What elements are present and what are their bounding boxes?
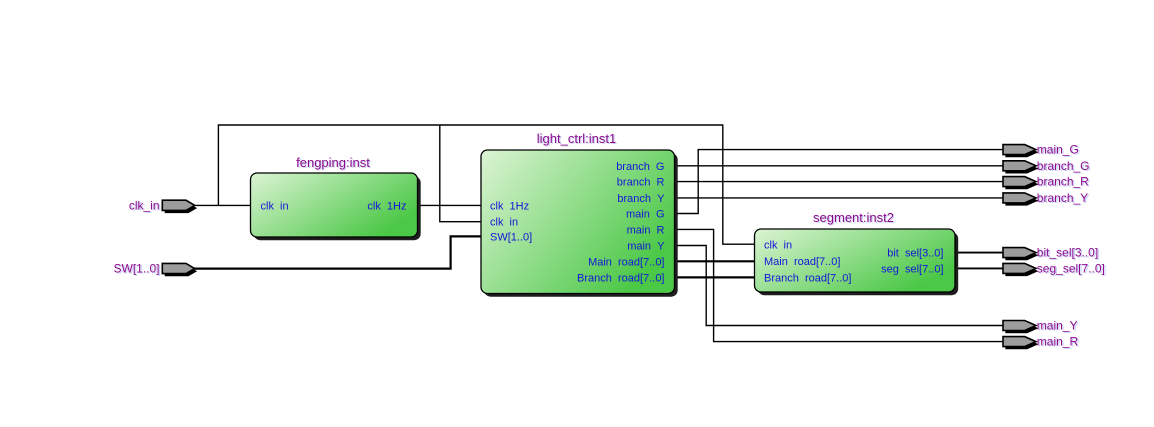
svg-text:Branch road[7..0]: Branch road[7..0] [764,272,851,284]
label seg_sel[7..0] [1037,261,1107,276]
svg-text:branch R: branch R [617,177,665,189]
bus Main road[7..0] light_ctrl to segment [674,260,755,262]
output pin main_R [1003,337,1038,350]
wire vertical branch from clk_in net up [217,125,219,205]
label main_Y [1037,319,1079,334]
label SW[1..0] [113,262,161,277]
wire branch R to branch_R pin [674,181,1003,183]
block light_ctrl:inst1 [481,150,678,297]
bus segment seg sel to seg_sel pin [954,267,1003,269]
svg-text:main G: main G [626,209,665,221]
label clk_in [129,198,161,213]
svg-text:branch_Y: branch_Y [1037,191,1088,205]
svg-text:main_G: main_G [1037,143,1079,157]
label main_R [1037,335,1080,350]
wire main R to main_R pin [674,229,1003,341]
svg-text:seg_sel[7..0]: seg_sel[7..0] [1037,261,1105,275]
svg-text:segment:inst2: segment:inst2 [813,210,894,225]
svg-text:SW[1..0]: SW[1..0] [490,231,532,243]
wire branch G to branch_G pin [674,165,1003,167]
wire top horizontal clk net [218,124,724,126]
input pin SW[1..0] [162,263,197,276]
label branch_Y [1037,191,1090,206]
svg-text:clk 1Hz: clk 1Hz [367,200,406,212]
svg-text:main_Y: main_Y [1037,319,1078,333]
svg-text:branch_G: branch_G [1037,159,1090,173]
label branch_G [1037,159,1091,174]
output pin branch_G [1003,161,1038,174]
svg-text:SW[1..0]: SW[1..0] [113,262,159,276]
title light_ctrl:inst1 [537,131,618,147]
output pin main_G [1003,145,1038,158]
output pin branch_Y [1003,193,1038,206]
wire clk_in pin to fengping clk in [194,204,251,206]
bus SW[1..0] pin to light_ctrl [194,236,482,268]
svg-text:Branch road[7..0]: Branch road[7..0] [577,272,664,284]
svg-text:branch_R: branch_R [1037,175,1089,189]
block segment:inst2 [755,229,959,295]
svg-text:light_ctrl:inst1: light_ctrl:inst1 [537,131,616,146]
label bit_sel[3..0] [1037,246,1100,261]
svg-text:fengping:inst: fengping:inst [296,155,370,170]
title fengping:inst [296,155,371,171]
label main_G [1037,143,1081,158]
svg-text:Main road[7..0]: Main road[7..0] [588,256,664,268]
svg-text:clk in: clk in [490,217,518,229]
wire main Y to main_Y pin [674,246,1003,326]
label branch_R [1037,175,1091,190]
svg-text:main R: main R [627,224,665,236]
output pin bit_sel[3..0] [1003,248,1038,261]
title segment:inst2 [813,210,895,226]
wire branch Y to branch_Y pin [674,197,1003,199]
output pin branch_R [1003,177,1038,190]
svg-text:clk_in: clk_in [129,198,160,212]
svg-text:branch G: branch G [616,161,664,173]
bus Branch road[7..0] light_ctrl to segment [674,276,755,278]
bus segment bit sel to bit_sel pin [954,252,1003,254]
svg-text:branch Y: branch Y [617,193,665,205]
svg-text:bit sel[3..0]: bit sel[3..0] [887,248,943,260]
svg-text:clk 1Hz: clk 1Hz [490,200,529,212]
output pin main_Y [1003,321,1038,334]
svg-text:clk in: clk in [261,200,289,212]
wire fengping clk 1Hz to light_ctrl clk 1Hz [417,204,482,206]
block fengping:inst [251,173,421,240]
svg-text:main Y: main Y [627,241,665,253]
wire main G to main_G pin [674,150,1003,214]
output pin seg_sel[7..0] [1003,263,1038,276]
svg-text:main_R: main_R [1037,335,1079,349]
wire drop from clk net to segment clk in [723,125,755,244]
wire drop from clk net to light_ctrl clk in [440,125,482,222]
svg-text:seg sel[7..0]: seg sel[7..0] [881,263,943,275]
svg-text:bit_sel[3..0]: bit_sel[3..0] [1037,246,1098,260]
input pin clk_in [162,200,197,213]
svg-text:Main road[7..0]: Main road[7..0] [764,256,840,268]
svg-text:clk in: clk in [764,239,792,251]
